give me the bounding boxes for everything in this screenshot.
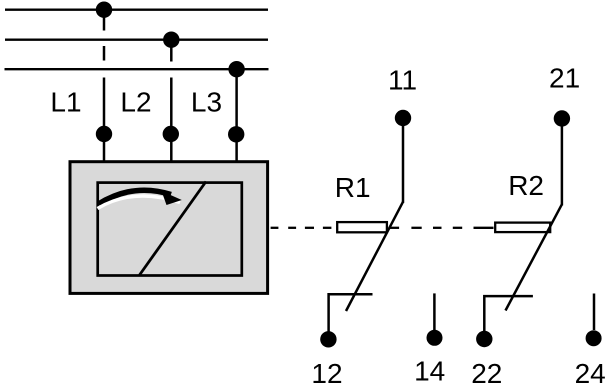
svg-text:R2: R2 xyxy=(508,170,544,201)
svg-text:24: 24 xyxy=(575,358,606,389)
wire L3 tap segment down to device xyxy=(235,71,238,161)
wire contact R1 NC bracket to terminal 12 xyxy=(329,294,373,333)
svg-text:11: 11 xyxy=(388,65,417,96)
node terminal dot 14 xyxy=(427,330,443,346)
wire L1 tap hop segment between bus 2 and bus 3 xyxy=(103,46,106,61)
wire mechanical linkage dashed line from R1 to R2 xyxy=(389,227,399,229)
svg-text:R1: R1 xyxy=(335,172,371,203)
wire terminal 21 to contact R2 xyxy=(561,119,564,206)
wire phase bus line 2 (middle) xyxy=(5,39,268,41)
node terminal dot 24 xyxy=(586,330,602,346)
node input terminal dot L2 xyxy=(163,126,179,142)
node terminal dot 21 xyxy=(554,110,570,126)
svg-text:L1: L1 xyxy=(50,87,81,118)
node junction dot L1 on bus line 1 xyxy=(96,2,112,18)
node input terminal dot L1 xyxy=(96,126,112,142)
wire L1 tap segment down to device xyxy=(103,78,106,162)
wire L1 tap segment below bus 1 xyxy=(103,12,106,31)
device U1 inner display window xyxy=(98,183,242,276)
wire phase bus line 3 (bottom) xyxy=(5,68,269,70)
node input terminal dot L3 xyxy=(228,126,244,142)
wire L2 tap segment below bus 2 xyxy=(170,42,173,62)
svg-text:21: 21 xyxy=(549,63,580,94)
node terminal dot 12 xyxy=(320,331,336,347)
contact R2 actuator rectangle xyxy=(495,223,550,233)
wire contact R2 NO stub to terminal 24 xyxy=(593,294,596,331)
svg-text:22: 22 xyxy=(471,358,502,389)
device characteristic diagonal line xyxy=(140,182,207,276)
svg-text:14: 14 xyxy=(414,356,445,387)
contact R2 moving contact diagonal xyxy=(506,204,562,310)
wire L2 tap segment down to device xyxy=(170,78,173,162)
node junction dot L2 on bus line 2 xyxy=(163,32,179,48)
wire phase bus line 1 (top) xyxy=(5,9,268,11)
contact R1 actuator rectangle xyxy=(337,222,387,232)
wire terminal 11 to contact R1 xyxy=(402,118,405,203)
wire contact R2 NC bracket to terminal 22 xyxy=(484,296,533,333)
node junction dot L3 on bus line 3 xyxy=(228,61,244,77)
wire contact R1 NO stub to terminal 14 xyxy=(433,293,436,331)
device curved adjustment arrow white highlight arc xyxy=(98,196,181,208)
wire mechanical linkage dashed line from device to R1 xyxy=(271,227,279,229)
device curved adjustment arrow black arc xyxy=(99,190,172,204)
node terminal dot 11 xyxy=(395,110,411,126)
device curved adjustment arrowhead xyxy=(162,191,182,205)
monitoring relay device U1 outer box xyxy=(70,162,268,294)
svg-text:L3: L3 xyxy=(191,87,222,118)
contact R1 moving contact diagonal xyxy=(346,202,403,311)
svg-text:12: 12 xyxy=(311,358,342,389)
node terminal dot 22 xyxy=(476,331,492,347)
svg-text:L2: L2 xyxy=(120,87,151,118)
